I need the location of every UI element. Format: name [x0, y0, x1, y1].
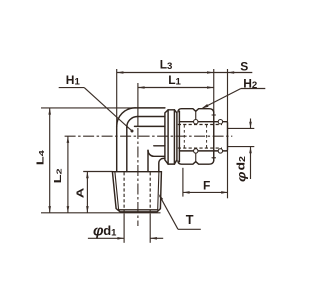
svg-text:S: S [240, 59, 248, 73]
svg-text:L1: L1 [168, 73, 181, 88]
svg-text:L3: L3 [160, 58, 173, 73]
svg-text:d2: d2 [235, 156, 248, 170]
svg-text:d1: d1 [103, 223, 117, 239]
svg-text:φ: φ [235, 171, 248, 182]
svg-text:T: T [186, 213, 194, 227]
svg-text:A: A [75, 188, 86, 199]
svg-text:F: F [203, 178, 210, 192]
svg-text:L4: L4 [35, 149, 47, 165]
svg-text:L2: L2 [52, 168, 64, 183]
svg-text:H2: H2 [243, 77, 257, 92]
svg-text:H1: H1 [66, 73, 81, 88]
